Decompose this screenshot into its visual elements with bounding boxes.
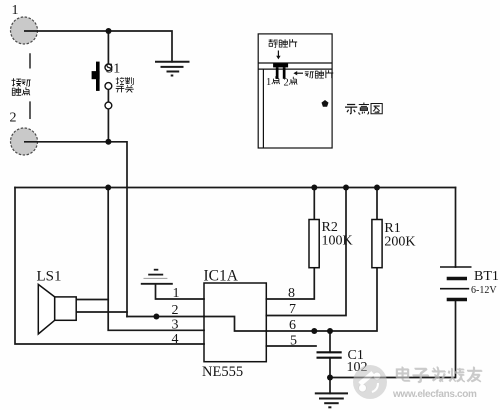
svg-text:LS1: LS1 [37,269,62,285]
svg-text:200K: 200K [384,235,415,250]
svg-text:S1: S1 [106,62,121,77]
svg-text:2: 2 [284,78,289,89]
svg-text:NE555: NE555 [202,364,243,380]
svg-text:www.elecfans.com: www.elecfans.com [392,389,477,400]
svg-text:1: 1 [173,286,180,301]
svg-text:3: 3 [172,318,179,333]
svg-text:BT1: BT1 [474,269,499,284]
svg-text:5: 5 [290,334,297,349]
svg-text:4: 4 [172,332,179,347]
svg-text:2: 2 [172,303,179,318]
svg-text:2: 2 [10,111,17,126]
svg-text:1: 1 [266,77,271,88]
svg-text:100K: 100K [322,234,353,249]
svg-text:IC1A: IC1A [204,268,239,285]
svg-text:6-12V: 6-12V [471,285,497,296]
svg-text:8: 8 [288,286,295,301]
svg-text:1: 1 [12,3,19,18]
svg-text:6: 6 [289,318,296,333]
svg-text:7: 7 [289,302,296,317]
